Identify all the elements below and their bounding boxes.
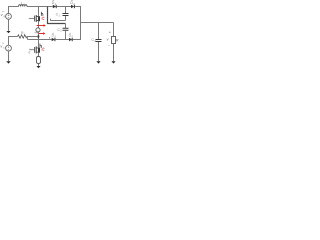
wire C1 bottom going left with stub bbox=[50, 19, 65, 21]
wire Vc down bbox=[8, 51, 10, 61]
svg-text:c: c bbox=[3, 46, 5, 50]
mid rail D4 to right vertical bbox=[73, 39, 81, 41]
diode D3 (mid rail) bbox=[52, 38, 55, 41]
diode D4 label bbox=[69, 33, 74, 38]
svg-text:v: v bbox=[1, 12, 3, 17]
svg-text:−: − bbox=[108, 44, 110, 48]
red arrow 2 bbox=[38, 32, 46, 34]
label i1 hat (black glyph right of drain) bbox=[41, 12, 43, 16]
svg-text:v: v bbox=[107, 38, 109, 42]
capacitor C3 output bbox=[96, 23, 102, 62]
branch A wire rail to Q1 drain bbox=[38, 7, 40, 17]
svg-text:+: + bbox=[109, 30, 112, 35]
wire box to ground bbox=[38, 64, 40, 66]
svg-text:v: v bbox=[0, 43, 2, 48]
wire right vertical bbox=[80, 7, 82, 41]
source Vc label bbox=[0, 43, 5, 50]
branch A wire mid-rail to Q2 bbox=[38, 40, 40, 48]
wire zigzag to dot bbox=[27, 36, 38, 38]
source Vg label bbox=[1, 11, 6, 18]
diode D4 (mid rail) bbox=[69, 38, 72, 41]
wire top rail D1 to D2 bbox=[57, 6, 71, 8]
transistor Q1 gate wire bbox=[29, 18, 35, 20]
label stub tick bbox=[49, 37, 51, 39]
output rail bbox=[81, 22, 114, 24]
ground under Vc bbox=[6, 61, 10, 63]
ground under load bbox=[111, 61, 115, 63]
node circle on branch A bbox=[36, 28, 40, 32]
resistor R1 zigzag bbox=[18, 35, 28, 38]
resistor R1 label bbox=[21, 31, 25, 36]
source Vg circle bbox=[6, 14, 12, 20]
transistor Q2 gate stub bbox=[30, 49, 35, 51]
diode D3 label bbox=[52, 33, 57, 38]
diode D1 label bbox=[52, 0, 57, 6]
svg-text:2: 2 bbox=[60, 29, 62, 33]
diode D2 bbox=[71, 5, 74, 8]
source Vc circle bbox=[6, 45, 12, 51]
svg-text:d: d bbox=[28, 50, 30, 54]
red arrow 1 bbox=[37, 24, 46, 26]
capacitor C3 label bbox=[91, 38, 96, 43]
branch B wire (switch node) bbox=[48, 7, 66, 24]
ground under box bbox=[36, 66, 40, 68]
load wire top bbox=[113, 23, 115, 37]
label red s2 beside Q2 bbox=[42, 48, 44, 51]
label i2 hat glyph bbox=[40, 44, 42, 48]
diode D1 bbox=[53, 5, 56, 8]
label d hat (lower gate) bbox=[28, 49, 30, 55]
wire connector down to mid rail bbox=[27, 37, 29, 40]
load wire bottom bbox=[113, 44, 115, 62]
junction dot node bbox=[37, 35, 39, 37]
ground under Vg bbox=[6, 31, 10, 33]
branch A wire circle to mid rail bbox=[38, 32, 40, 40]
mid rail left bbox=[28, 39, 52, 41]
wire top rail L to D1 bbox=[27, 6, 53, 8]
transistor Q1 bbox=[35, 15, 41, 22]
resistor box lower bbox=[37, 57, 41, 64]
wire source-bottom down bbox=[8, 19, 10, 31]
resistor R load box bbox=[112, 37, 116, 44]
mid rail D3 to C2 junction bbox=[55, 39, 69, 41]
capacitor C2 label bbox=[57, 28, 62, 33]
svg-text:R: R bbox=[116, 37, 119, 42]
capacitor C2 bbox=[63, 24, 69, 40]
inductor L1 label bbox=[21, 0, 26, 6]
branch A wire Q1 source down bbox=[38, 21, 40, 28]
branch A wire Q2 to box bbox=[38, 53, 40, 57]
capacitor C1 bbox=[63, 7, 69, 21]
transistor Q2 bbox=[35, 46, 41, 53]
gray tick left of branch A bbox=[35, 32, 38, 34]
diode D2 label bbox=[70, 0, 75, 6]
wire source-top to rail bbox=[9, 7, 19, 14]
wire Vc up and right bbox=[9, 37, 18, 46]
svg-text:1: 1 bbox=[59, 13, 61, 17]
ground under C3 bbox=[96, 61, 100, 63]
label red s1 beside Q1 bbox=[42, 17, 44, 20]
inductor L1 bbox=[19, 5, 27, 7]
capacitor C1 label bbox=[56, 13, 61, 18]
wire top rail D2 to corner bbox=[75, 6, 81, 8]
